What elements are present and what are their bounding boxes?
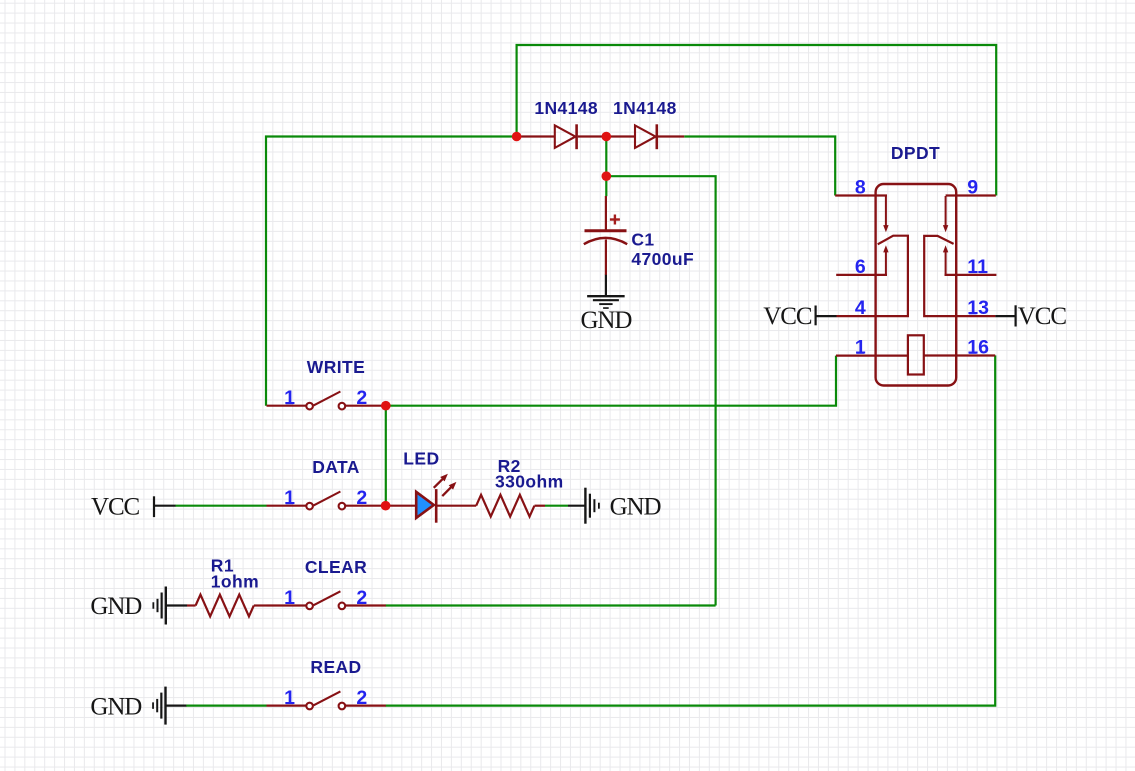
svg-text:330ohm: 330ohm	[495, 472, 564, 492]
svg-text:GND: GND	[610, 494, 662, 521]
svg-text:DATA: DATA	[312, 457, 360, 477]
svg-text:1: 1	[284, 587, 295, 609]
svg-text:2: 2	[356, 687, 367, 709]
svg-text:CLEAR: CLEAR	[305, 557, 367, 577]
svg-text:1N4148: 1N4148	[613, 98, 677, 118]
svg-text:1: 1	[284, 387, 295, 409]
svg-text:4700uF: 4700uF	[631, 249, 694, 269]
svg-text:6: 6	[855, 256, 866, 278]
svg-text:WRITE: WRITE	[307, 357, 365, 377]
svg-text:16: 16	[967, 337, 989, 359]
svg-text:VCC: VCC	[763, 303, 812, 330]
svg-text:2: 2	[356, 587, 367, 609]
svg-text:C1: C1	[631, 229, 654, 249]
svg-text:11: 11	[967, 256, 988, 278]
svg-text:4: 4	[855, 297, 866, 319]
svg-text:DPDT: DPDT	[891, 143, 940, 163]
svg-text:1: 1	[284, 487, 295, 509]
svg-text:READ: READ	[310, 657, 361, 677]
svg-text:GND: GND	[90, 593, 142, 620]
svg-text:1: 1	[855, 337, 866, 359]
svg-text:13: 13	[967, 297, 989, 319]
svg-text:VCC: VCC	[91, 493, 140, 520]
svg-text:1: 1	[284, 687, 295, 709]
svg-text:GND: GND	[90, 693, 142, 720]
svg-text:VCC: VCC	[1018, 303, 1067, 330]
svg-text:9: 9	[967, 177, 978, 199]
svg-text:1N4148: 1N4148	[534, 98, 598, 118]
svg-text:2: 2	[356, 487, 367, 509]
svg-text:8: 8	[855, 177, 866, 199]
svg-text:1ohm: 1ohm	[211, 572, 259, 592]
svg-text:2: 2	[356, 387, 367, 409]
svg-text:LED: LED	[403, 449, 439, 469]
svg-text:GND: GND	[580, 307, 632, 334]
